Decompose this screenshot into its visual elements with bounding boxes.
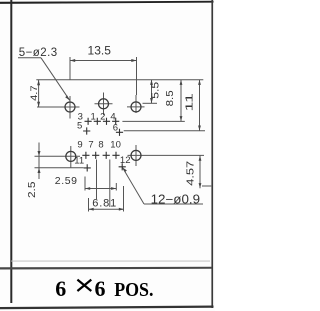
svg-text:13.5: 13.5 xyxy=(88,44,112,58)
svg-text:5−ø2.3: 5−ø2.3 xyxy=(19,47,58,59)
svg-text:4.57: 4.57 xyxy=(185,161,197,186)
svg-text:1: 1 xyxy=(91,112,96,123)
svg-text:8: 8 xyxy=(98,140,103,151)
svg-text:2.5: 2.5 xyxy=(27,181,38,198)
svg-text:6: 6 xyxy=(113,122,118,133)
svg-text:4: 4 xyxy=(110,112,115,123)
svg-text:4.7: 4.7 xyxy=(29,85,40,101)
svg-text:5: 5 xyxy=(77,121,82,132)
svg-text:10: 10 xyxy=(110,140,121,151)
svg-text:2.59: 2.59 xyxy=(55,175,78,187)
svg-text:6: 6 xyxy=(55,276,66,301)
svg-text:11: 11 xyxy=(183,93,195,112)
svg-text:6.81: 6.81 xyxy=(92,198,117,210)
svg-text:6: 6 xyxy=(95,276,106,301)
svg-text:8.5: 8.5 xyxy=(165,90,176,106)
svg-text:2: 2 xyxy=(100,112,105,123)
svg-text:9: 9 xyxy=(77,140,82,151)
svg-text:12−ø0.9: 12−ø0.9 xyxy=(151,193,201,207)
svg-text:7: 7 xyxy=(88,140,93,151)
svg-text:5.5: 5.5 xyxy=(151,81,162,99)
svg-text:12: 12 xyxy=(120,155,131,166)
svg-text:POS.: POS. xyxy=(114,279,153,301)
svg-text:11: 11 xyxy=(74,156,84,167)
